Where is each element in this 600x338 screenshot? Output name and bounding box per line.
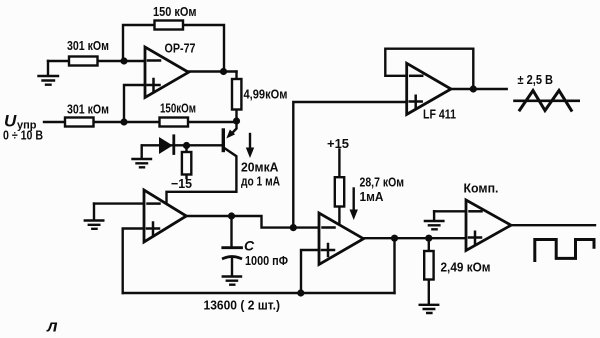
svg-text:20мкА: 20мкА [241,160,279,175]
wire U2 inverting input [94,202,144,204]
node: OP-77 output / feedback [220,68,227,75]
wire OP-77 output [189,70,237,72]
wire inverting input line OP-77 [48,60,145,62]
svg-text:С: С [244,238,255,254]
wire 4.99k branch [235,72,237,122]
svg-text:до 1 мА: до 1 мА [241,174,280,189]
transistor Q1 collector [167,148,237,203]
wire feedback top loop OP-77 [123,25,224,72]
square wave symbol [535,240,594,261]
resistor R8 2.49 kOhm [428,238,430,304]
resistor R4 150 kOhm (lower) [160,118,189,127]
svg-text:28,7 кОм: 28,7 кОм [360,175,405,190]
svg-text:Комп.: Комп. [464,181,499,196]
OTA U3 (13600 half) [319,213,364,265]
svg-text:+15: +15 [327,136,349,151]
svg-text:л: л [46,317,58,336]
wire comparator output [511,224,596,226]
resistor R7 28.7 kOhm [335,177,344,206]
wire Uupr input line [44,121,237,123]
ground (capacitor) [223,277,241,285]
wire non-inverting loop OP-77 [124,85,145,122]
svg-text:13600 ( 2 шт.): 13600 ( 2 шт.) [204,298,281,313]
svg-text:1мА: 1мА [360,189,385,204]
comparator U5 [466,200,511,251]
node: U3 output [391,235,398,242]
node: bottom rail / U3 + junction [297,289,304,296]
ground (U5 inverting input) [425,211,444,229]
svg-text:LF 411: LF 411 [423,107,456,122]
node: triangle-wave node junction [290,224,297,231]
wire LF411 output [451,88,507,90]
resistor R6 (to -15) [185,146,187,179]
node: base / R6 junction [183,142,190,149]
ground (R8 bottom) [420,305,439,313]
resistor R1 150 kOhm feedback [155,21,184,30]
resistor R5 4.99 kOhm [232,79,241,110]
wire U2 output [186,216,319,228]
resistor R3 301 kOhm (lower) [65,118,94,127]
node: +input / Uupr line junction [120,118,127,125]
svg-text:301 кОм: 301 кОм [67,38,109,53]
wire LF411 feedback loop [385,49,473,89]
current arrow 20uA [249,134,251,150]
svg-text:0 ÷ 10 В: 0 ÷ 10 В [3,128,43,143]
diode VD1 [159,137,173,154]
svg-text:−15: −15 [171,176,192,191]
wire feedback to bottom rail [393,238,395,293]
transistor Q1 base bar [222,130,225,151]
current arrow 1mA [353,189,355,213]
resistor R2 301 kOhm (upper) [69,57,98,66]
wire U5 inverting input [434,210,466,212]
ground (diode anode) [133,146,152,168]
wire bottom rail [123,292,395,294]
ground (top-left) [39,61,59,85]
svg-text:2,49 кОм: 2,49 кОм [441,260,491,275]
node: R4/R5/emitter junction [233,117,240,124]
svg-text:301 кОм: 301 кОм [67,102,109,117]
svg-text:1000 пФ: 1000 пФ [245,253,288,268]
wire +15 to R7 [338,150,340,225]
node: comparator + input [425,235,432,242]
node: LF411 output [470,85,477,92]
wire to LF411 buffer input [293,102,406,228]
wire U3 non-inverting loop [301,250,319,293]
svg-text:± 2,5 В: ± 2,5 В [518,72,554,87]
svg-text:ОР-77: ОР-77 [165,41,196,56]
svg-text:150кОм: 150кОм [160,101,196,116]
wire base line [142,144,222,146]
OTA U2 (13600 half, integrator) [144,190,186,242]
node: integrator output / C [228,212,235,219]
op-amp U4 LF411 [407,63,451,114]
triangle wave symbol [515,100,579,103]
ground (U2 inverting input) [85,204,104,229]
wire U3 output to comparator [364,237,467,239]
svg-text:4,99кОм: 4,99кОм [244,87,288,102]
node: R2 / feedback junction [120,57,127,64]
capacitor C 1000 pF [230,216,232,247]
svg-text:150 кОм: 150 кОм [153,4,197,19]
wire U2 non-inverting loop [123,229,144,294]
op-amp U1 OP-77 [145,47,189,98]
transistor Q1 emitter with arrow [231,121,237,135]
